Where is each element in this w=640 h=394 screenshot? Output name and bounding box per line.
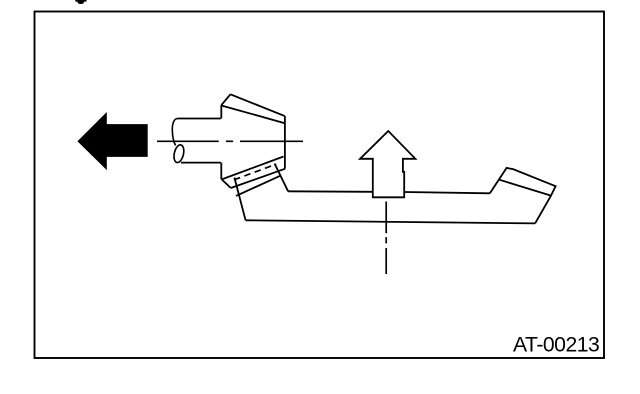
steep connector from threaded band to bracket	[275, 164, 289, 192]
bracket right end upturned tab	[490, 168, 556, 224]
svg-text:AT-00213: AT-00213	[513, 334, 599, 357]
horizontal centerline dash-dot	[157, 140, 303, 142]
cone left face upper segment	[220, 105, 222, 118]
pipe bottom edge	[181, 162, 221, 164]
cone bottom back edge S2	[231, 169, 285, 188]
bracket tab inner edge	[499, 180, 551, 196]
cone top back edge	[230, 94, 284, 116]
pipe rounded left end	[172, 119, 177, 146]
bracket bottom edge	[246, 220, 535, 223]
bracket top edge (right of up-arrow shaft)	[405, 192, 490, 193]
lower band edge S3	[236, 175, 281, 196]
cone left face lower segment	[220, 163, 222, 180]
vertical centerline dash-dot	[385, 202, 387, 275]
bracket left slanted edge	[234, 178, 245, 221]
pipe end ellipse	[172, 144, 185, 164]
black arrow pointing left	[78, 113, 147, 169]
up arrow outline	[360, 131, 415, 197]
partial glyph descender at top edge	[75, 0, 86, 4]
cone bottom bevel	[222, 179, 231, 188]
cone top front edge	[222, 106, 285, 124]
cone top bevel	[221, 94, 230, 105]
cone right face	[284, 116, 286, 168]
thread dashed line	[234, 164, 276, 180]
pipe top edge	[178, 118, 221, 120]
bracket top edge (left of up-arrow shaft)	[288, 190, 372, 193]
cone bottom front edge S1	[222, 157, 284, 180]
frame border	[35, 12, 605, 359]
